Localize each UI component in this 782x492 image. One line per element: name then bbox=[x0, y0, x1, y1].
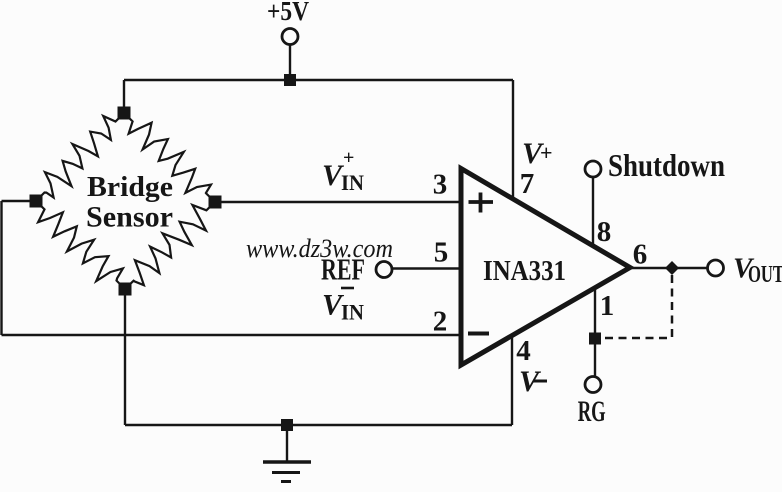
terminal: Vout open circle bbox=[708, 260, 724, 276]
symbol: + input marker bbox=[469, 193, 494, 213]
svg-text:6: 6 bbox=[633, 239, 648, 271]
svg-text:4: 4 bbox=[516, 335, 531, 367]
wire: shutdown stem to pin 8 bbox=[592, 177, 594, 246]
wire: bridge bottom drop bbox=[124, 289, 126, 425]
wire: bottom ground rail bbox=[125, 424, 512, 426]
wire: inverting input run to pin 2 bbox=[2, 334, 460, 336]
svg-text:RG: RG bbox=[578, 395, 606, 428]
svg-text:2: 2 bbox=[433, 306, 448, 338]
wire: pin 1 drop to RG bbox=[594, 288, 596, 376]
wire: bridge left node stub bbox=[2, 200, 37, 202]
svg-text:+: + bbox=[343, 147, 354, 169]
svg-text:7: 7 bbox=[520, 168, 535, 200]
node: junction square on top rail bbox=[284, 74, 296, 86]
resistor R4 (bridge bottom-right arm) bbox=[125, 202, 215, 289]
resistor R3 (bridge bottom-left arm) bbox=[36, 201, 125, 289]
wire: left vertical bbox=[0, 201, 2, 335]
svg-text:INA331: INA331 bbox=[483, 255, 566, 287]
svg-text:Sensor: Sensor bbox=[86, 201, 173, 234]
wire: non-inverting input run to pin 3 bbox=[215, 201, 459, 203]
svg-text:+: + bbox=[540, 140, 553, 165]
symbol: - input marker bbox=[468, 332, 489, 336]
label: V+ supply pin label bbox=[522, 137, 553, 170]
wire: output from pin 6 bbox=[630, 267, 708, 269]
symbol: minus superscript of Vin- bbox=[341, 287, 354, 290]
resistor R1 (bridge top-left arm) bbox=[36, 113, 124, 201]
svg-text:OUT: OUT bbox=[748, 262, 782, 288]
node: output junction diamond bbox=[665, 261, 679, 275]
svg-text:REF: REF bbox=[321, 252, 365, 287]
terminal: Shutdown open circle bbox=[585, 161, 601, 177]
node: RG junction square bbox=[589, 333, 601, 345]
terminal: +5V open circle bbox=[282, 29, 298, 45]
resistor R2 (bridge top-right arm) bbox=[124, 113, 215, 202]
terminal: REF open circle bbox=[376, 262, 392, 278]
svg-text:+5V: +5V bbox=[267, 0, 309, 26]
svg-text:Bridge: Bridge bbox=[87, 172, 173, 203]
svg-text:8: 8 bbox=[597, 216, 612, 248]
wire: REF to pin 5 bbox=[392, 267, 459, 269]
label: Vout bbox=[733, 253, 782, 289]
wire: dashed feedback horizontal bbox=[601, 337, 667, 340]
symbol: minus of V- label bbox=[533, 380, 547, 383]
node: ground junction bbox=[281, 419, 293, 431]
svg-text:5: 5 bbox=[434, 237, 449, 269]
node: bridge right bbox=[209, 196, 222, 209]
wire: ground stem bbox=[286, 425, 288, 461]
wire: V+ drop to pin 7 bbox=[512, 80, 514, 200]
wire: +5V stem bbox=[289, 45, 291, 80]
svg-text:3: 3 bbox=[433, 169, 448, 201]
svg-text:Shutdown: Shutdown bbox=[608, 147, 725, 183]
terminal: RG open circle bbox=[585, 377, 601, 393]
wire: top supply rail bbox=[124, 79, 513, 81]
node: bridge left bbox=[30, 195, 43, 208]
wire: pin 4 riser bbox=[511, 337, 513, 425]
svg-text:IN: IN bbox=[341, 300, 364, 325]
wire: dashed feedback vertical bbox=[671, 275, 674, 338]
node: bridge bottom bbox=[119, 283, 132, 296]
op-amp U1 INA331 triangle bbox=[461, 169, 630, 366]
wire: drop from top rail to bridge top node bbox=[123, 80, 125, 113]
label: Vin- bbox=[322, 289, 364, 325]
label: Vin+ bbox=[322, 147, 364, 195]
svg-text:IN: IN bbox=[341, 170, 364, 195]
svg-text:1: 1 bbox=[600, 290, 615, 322]
node: bridge top bbox=[118, 107, 131, 120]
ground symbol bbox=[263, 462, 311, 482]
svg-text:www.dz3w.com: www.dz3w.com bbox=[246, 234, 393, 263]
